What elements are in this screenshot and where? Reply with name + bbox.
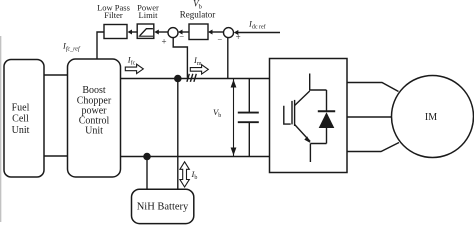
wire fuel-cell to boost (bottom) xyxy=(44,155,68,157)
wire summing junction S2 to regulator with arrowhead xyxy=(212,31,224,33)
low pass filter box xyxy=(104,24,127,38)
wire LPF output down to boost chopper, net Ifc_ref xyxy=(97,32,104,59)
Vb measure arrowhead down xyxy=(231,147,237,155)
junction dot on dc bus xyxy=(174,75,182,83)
svg-text:IM: IM xyxy=(425,112,437,123)
NiH battery box xyxy=(131,189,193,223)
bottom rail wire xyxy=(120,155,269,157)
wire power-limit to low-pass-filter with arrowhead xyxy=(131,31,137,33)
svg-text:Idc ref: Idc ref xyxy=(248,19,266,31)
IGBT Q1 xyxy=(291,101,293,125)
wire S2 feedback from Vb xyxy=(227,38,229,79)
saturation glyph inside power limit xyxy=(140,29,153,36)
svg-text:Ifc: Ifc xyxy=(127,54,136,66)
svg-text:Limit: Limit xyxy=(139,10,159,20)
wire S1 feedback from current sensor xyxy=(173,38,187,78)
svg-text:Im: Im xyxy=(193,55,202,67)
hollow arrow Im on bus xyxy=(190,65,208,74)
wire battery negative to bottom rail xyxy=(146,156,148,189)
fuel cell unit box xyxy=(4,59,44,177)
svg-text:Filter: Filter xyxy=(104,10,123,20)
svg-text:NiH Battery: NiH Battery xyxy=(137,201,189,212)
wire regulator to S1 with arrowhead xyxy=(182,31,189,33)
Vb regulator box xyxy=(189,24,208,40)
inverter box U1 xyxy=(269,59,347,173)
summing junction S1 xyxy=(168,28,178,38)
summing junction S2 xyxy=(224,28,234,38)
svg-text:Vb: Vb xyxy=(213,107,221,119)
power limit box xyxy=(137,24,154,38)
dc bus wire (top) xyxy=(121,77,270,79)
diode D1 xyxy=(326,90,328,111)
Vb measurement dimension line xyxy=(232,78,234,156)
svg-text:Unit: Unit xyxy=(12,125,30,136)
svg-text:Cell: Cell xyxy=(12,113,29,124)
Vb measure arrowhead up xyxy=(231,79,237,87)
wire summing junction S1 to power limit with arrowhead xyxy=(158,31,168,33)
Idc ref input wire with arrowhead into S2 xyxy=(238,32,281,34)
junction dot on bottom rail xyxy=(143,153,151,161)
boost chopper power control unit box xyxy=(67,59,120,177)
wire fuel-cell to boost (top) xyxy=(44,74,68,76)
IGBT Q1 collector stub xyxy=(310,74,327,91)
svg-text:+: + xyxy=(161,37,166,47)
current sensor hash marks on dc bus xyxy=(187,74,189,82)
scan edge streak (left border) xyxy=(0,36,2,222)
wire emitter rail to diode xyxy=(310,143,326,145)
svg-text:Fuel: Fuel xyxy=(12,102,30,113)
motor phase wire top xyxy=(347,83,399,92)
motor phase wire middle xyxy=(347,116,392,118)
svg-text:Ib: Ib xyxy=(190,169,197,181)
svg-text:Ifc_ref: Ifc_ref xyxy=(62,40,81,52)
capacitor C dc-link xyxy=(248,79,250,113)
hollow double arrow Ib xyxy=(180,162,189,187)
induction motor IM xyxy=(391,76,473,158)
motor phase wire bottom xyxy=(347,143,399,152)
hollow arrow Ifc on bus xyxy=(125,64,143,73)
svg-text:Regulator: Regulator xyxy=(180,9,216,19)
wire battery positive to dc bus junction xyxy=(177,78,179,189)
svg-text:−: − xyxy=(217,34,222,44)
svg-text:Unit: Unit xyxy=(85,126,103,137)
IGBT Q1 emitter stub xyxy=(309,144,311,163)
